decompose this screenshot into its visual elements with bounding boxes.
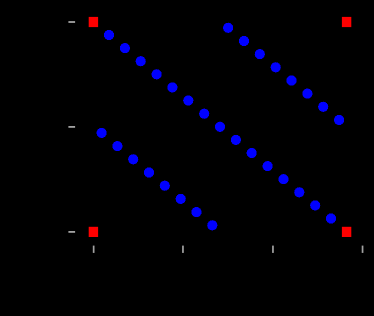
blue point B5 [286,75,296,85]
blue point C1 [97,128,107,138]
x-axis tick 4 [362,246,364,253]
blue point A5 [167,82,177,92]
red square marker S2 (top right) [342,17,351,27]
red square marker S4 (bottom right) [342,227,351,237]
blue point A7 [199,109,209,119]
x-axis tick 2 [182,246,184,253]
x-axis tick 1 [93,246,95,253]
blue point A2 [120,43,130,53]
blue point B1 [223,23,233,33]
blue point C3 [128,154,138,164]
blue point A1 [104,30,114,40]
blue point A6 [183,95,193,105]
blue point C8 [207,220,217,230]
blue point A11 [263,161,273,171]
blue point A10 [247,148,257,158]
blue point B4 [271,62,281,72]
blue point A12 [278,174,288,184]
blue point C2 [112,141,122,151]
blue point A8 [215,122,225,132]
blue point A15 [326,213,336,223]
red square marker S3 (bottom left) [89,227,98,237]
y-axis tick 2 [68,126,75,128]
blue point C6 [176,194,186,204]
blue point A3 [136,56,146,66]
y-axis tick 1 [68,21,75,23]
blue point B6 [302,89,312,99]
blue point A9 [231,135,241,145]
blue point C7 [191,207,201,217]
red square marker S1 (top left) [89,17,98,27]
blue point A14 [310,200,320,210]
blue point A4 [152,69,162,79]
blue point C5 [160,181,170,191]
blue point B7 [318,102,328,112]
y-axis tick 3 [68,231,75,233]
blue point C4 [144,167,154,177]
blue point B3 [255,49,265,59]
blue point A13 [294,187,304,197]
blue point B8 [334,115,344,125]
blue point B2 [239,36,249,46]
x-axis tick 3 [272,246,274,253]
